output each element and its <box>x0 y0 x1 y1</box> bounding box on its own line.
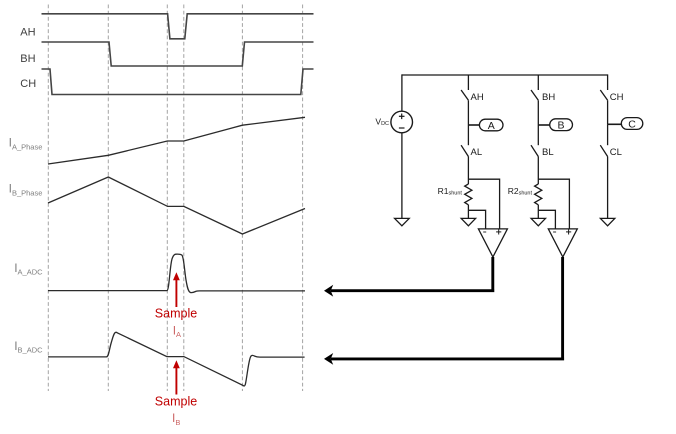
label switch BL <box>542 147 554 158</box>
wire CL to ground <box>607 157 609 219</box>
ground (R1 leg) <box>461 218 475 225</box>
svg-text:AH: AH <box>20 27 35 39</box>
sample label A <box>155 307 197 321</box>
gridline t3 <box>166 5 168 392</box>
svg-text:CH: CH <box>610 92 624 103</box>
svg-text:AH: AH <box>471 92 484 103</box>
sample arrow B <box>173 360 180 394</box>
wire shunt bottom to amp2 minus input <box>538 210 555 229</box>
waveform IB_Phase <box>48 177 305 234</box>
switch BL <box>531 145 538 156</box>
wire shunt top to amp1 plus input <box>468 179 499 229</box>
wire top rail <box>402 74 608 76</box>
svg-text:BL: BL <box>542 147 554 158</box>
wire node C to switch CL <box>607 124 609 145</box>
wire R1 bottom to ground <box>467 205 469 219</box>
waveform IA_ADC <box>48 254 305 293</box>
wire node A to switch AL <box>467 125 469 145</box>
svg-text:BH: BH <box>20 53 35 65</box>
switch AL <box>461 145 468 156</box>
label AH <box>20 27 35 39</box>
label BH <box>20 53 35 65</box>
label switch CH <box>610 92 624 103</box>
svg-text:A: A <box>488 120 495 132</box>
feedback arrow amp1 to IA_ADC <box>324 257 494 297</box>
switch CH <box>600 90 607 100</box>
svg-text:Sample: Sample <box>155 394 197 408</box>
wire node B to switch BL <box>537 125 539 145</box>
waveform CH <box>42 69 314 95</box>
label CH <box>20 78 36 90</box>
label switch CL <box>610 147 622 158</box>
resistor R1 <box>465 184 472 205</box>
label R1 <box>438 186 463 197</box>
voltage source VDC <box>391 74 413 218</box>
switch BH <box>531 90 538 100</box>
label IA_Phase <box>9 136 43 152</box>
sample current label IB <box>172 411 180 427</box>
wire CH to phase node C <box>607 100 609 124</box>
ground (VDC leg) <box>395 218 410 225</box>
resistor R2 <box>535 184 542 205</box>
gridline t5 <box>241 5 243 392</box>
svg-text:B: B <box>557 120 564 132</box>
switch AH <box>461 90 468 100</box>
label IB_Phase <box>9 182 43 198</box>
wire leg B upper stub <box>537 75 539 90</box>
ground (leg C) <box>600 218 614 225</box>
wire phase node B to motor <box>538 124 549 126</box>
sample arrow A <box>173 272 180 307</box>
wire shunt top to amp2 plus input <box>538 179 569 229</box>
label switch AL <box>471 147 483 158</box>
svg-text:Sample: Sample <box>155 307 197 321</box>
op-amp U2 <box>548 229 577 257</box>
label switch BH <box>542 92 555 103</box>
gridline t4 <box>183 5 185 392</box>
waveform IB_ADC <box>48 332 305 386</box>
label switch AH <box>471 92 484 103</box>
wire phase node C to motor <box>608 123 622 125</box>
svg-text:CL: CL <box>610 147 622 158</box>
svg-text:BH: BH <box>542 92 555 103</box>
waveform BH <box>42 42 314 66</box>
svg-text:AL: AL <box>471 147 483 158</box>
ground (R2 leg) <box>531 218 545 225</box>
wire leg A upper stub <box>467 75 469 90</box>
label VDC <box>375 116 389 127</box>
wire AH to phase node A <box>467 100 469 125</box>
gridline t1 <box>47 5 49 392</box>
label R2 <box>508 186 533 197</box>
sample current label IA <box>173 323 181 339</box>
svg-text:C: C <box>628 118 636 130</box>
wire leg C upper stub <box>607 74 609 90</box>
feedback arrow amp2 to IB_ADC <box>324 257 564 365</box>
wire phase node A to motor <box>468 124 479 126</box>
label IA_ADC <box>14 261 43 277</box>
motor phase A <box>479 119 503 132</box>
waveform AH <box>42 14 314 39</box>
svg-text:CH: CH <box>20 78 36 90</box>
wire BH to phase node B <box>537 100 539 125</box>
waveform IA_Phase <box>48 117 305 164</box>
gridline t6 <box>302 5 304 392</box>
gridline t2 <box>107 5 109 392</box>
wire R2 bottom to ground <box>537 205 539 219</box>
op-amp U1 <box>478 229 507 257</box>
wire BL to shunt node <box>537 157 539 185</box>
sample label B <box>155 394 197 408</box>
motor phase B <box>550 119 573 132</box>
motor phase C <box>621 118 643 131</box>
label IB_ADC <box>14 339 43 355</box>
wire shunt bottom to amp1 minus input <box>468 210 485 229</box>
switch CL <box>600 145 607 156</box>
wire AL to shunt node <box>467 157 469 185</box>
